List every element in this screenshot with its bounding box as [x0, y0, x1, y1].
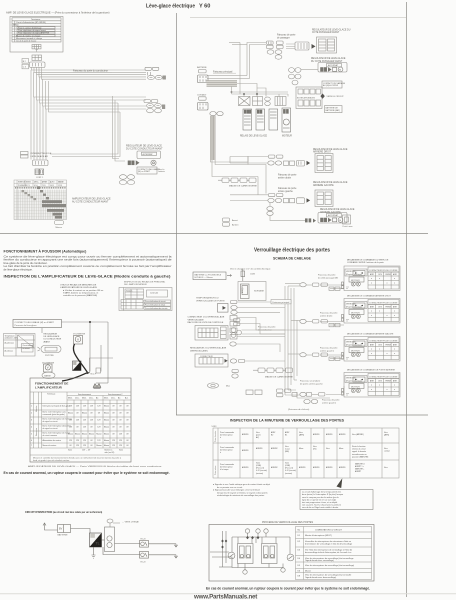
svg-text:REGULATEUR: REGULATEUR: [44, 333, 58, 336]
svg-text:Masse: Masse: [104, 434, 109, 436]
svg-text:MARCHE et: MARCHE et: [355, 462, 365, 465]
wires timer to trunk: [238, 302, 286, 312]
svg-text:Vitez les interrupteurs de ver: Vitez les interrupteurs de verrouillage …: [305, 564, 354, 567]
svg-text:BATTERIE: BATTERIE: [58, 534, 69, 537]
minuterie cells row2: [220, 445, 390, 458]
battery box: [193, 272, 226, 280]
svg-text:Masse: Masse: [82, 434, 87, 436]
svg-text:Avant: Avant: [232, 219, 238, 222]
section divider vertical: [176, 13, 178, 415]
staircase marks: [22, 187, 50, 201]
svg-text:Mass: Mass: [299, 448, 303, 450]
svg-text:Pour vérification des circuits: Pour vérification des circuits: [145, 307, 167, 310]
svg-text:4: 4: [31, 427, 32, 429]
svg-text:B2: B2: [271, 435, 273, 437]
driver regulator box alternat: [137, 151, 161, 158]
bottom merged row texts: [68, 449, 123, 455]
svg-text:Varie: Varie: [68, 450, 72, 452]
svg-text:(ARR): (ARR): [299, 434, 304, 437]
svg-text:Desc.: Desc.: [111, 398, 116, 400]
wire column to relays: [115, 543, 141, 545]
diamond node: [320, 94, 324, 99]
svg-text:à la tempo: à la tempo: [220, 468, 228, 471]
svg-text:laps) de ce qui fait 51 né sur: laps) de ce qui fait 51 né sur suit cègl…: [302, 498, 337, 501]
svg-text:6: 6: [31, 440, 32, 442]
svg-text:MASSE DE CARROSSERIE: MASSE DE CARROSSERIE: [229, 185, 257, 188]
connector ovals right mid: [147, 103, 166, 112]
svg-text:à: à: [220, 437, 221, 439]
wires fig1 to trunk: [242, 330, 331, 334]
connector J1 below legend table: [32, 45, 41, 52]
svg-text:ou minut.: ou minut.: [23, 347, 31, 350]
svg-text:INSPECTION DE LA MINUTERIE DE: INSPECTION DE LA MINUTERIE DE VERROUILLA…: [230, 419, 345, 423]
svg-text:Faisceau principal: Faisceau principal: [213, 70, 233, 73]
svg-text:ARR/B1: ARR/B1: [299, 466, 306, 469]
ovals bottom: [267, 207, 273, 216]
connector pin bead row: [15, 187, 66, 189]
svg-text:Masse: Masse: [104, 445, 109, 447]
svg-text:Pour vérification du relais: Pour vérification du relais: [145, 304, 165, 307]
fuse box block: [296, 87, 322, 109]
svg-text:CONNECTEUR 1 DU VERROUILLAGE: CONNECTEUR 1 DU VERROUILLAGE: [188, 316, 225, 319]
svg-text:(ARR): (ARR): [384, 434, 389, 437]
svg-text:B1: B1: [285, 435, 287, 437]
ignition contact box: [137, 167, 157, 174]
svg-text:d'orientation; de verrouillage: d'orientation; de verrouillage et état d…: [305, 543, 353, 546]
svg-text:Faisceau secondaire: Faisceau secondaire: [300, 380, 321, 383]
svg-text:REGULATEUR DE LEVE-GLACE: REGULATEUR DE LEVE-GLACE: [313, 148, 348, 151]
passenger feed wires top: [229, 43, 266, 79]
svg-text:PUPITRE: PUPITRE: [45, 355, 54, 357]
top faint rule: [190, 17, 406, 19]
svg-text:RACCORD DE L'ETE DE CONTROLE: RACCORD DE L'ETE DE CONTROLE: [188, 321, 224, 324]
svg-text:Masse: Masse: [104, 427, 109, 429]
svg-text:Verrouillez les interrupteurs: Verrouillez les interrupteurs de mécanis…: [305, 540, 351, 543]
source outline box: [238, 282, 266, 301]
actuator rear door: [342, 373, 401, 398]
svg-text:0-12 (circuits): 0-12 (circuits): [256, 469, 267, 472]
minuterie cells row3: [220, 462, 388, 474]
svg-text:contact: contact: [384, 450, 390, 453]
section divider horizontal mid: [0, 233, 428, 235]
svg-text:HYDELIS — Masse: HYDELIS — Masse: [195, 277, 214, 279]
motor unit bottom: [321, 218, 343, 223]
svg-text:DE LEVE-GLACE: DE LEVE-GLACE: [44, 335, 61, 338]
svg-text:Faisceau de porte: Faisceau de porte: [320, 347, 338, 350]
regulator text: [44, 333, 62, 344]
notes bullets below minuterie: [213, 483, 270, 497]
svg-text:ARR/B1: ARR/B1: [242, 433, 249, 436]
svg-text:(Parcourt): (Parcourt): [256, 467, 264, 470]
svg-text:OTEZ LE RELAIS DE MESURES DE: OTEZ LE RELAIS DE MESURES DE: [60, 284, 97, 287]
svg-text:MONT.: MONT.: [26, 182, 32, 184]
masse tag under grid: [55, 221, 64, 225]
svg-text:BOITE A FUSIBLES: BOITE A FUSIBLES: [297, 97, 316, 100]
svg-text:Arrière: Arrière: [232, 224, 239, 227]
svg-text:arrière gauche: arrière gauche: [320, 349, 335, 352]
temperature table: [4, 334, 36, 357]
svg-text:M: M: [339, 70, 341, 72]
mechanism 1 title: [347, 259, 389, 265]
contact feed block: [198, 102, 209, 110]
svg-text:Masse: Masse: [75, 434, 80, 436]
svg-text:DESC.: DESC.: [34, 182, 39, 184]
svg-text:voir au point. Tout lui chaud: voir au point. Tout lui chaud avec la pe…: [302, 504, 342, 507]
relay tall 2: [256, 109, 265, 130]
svg-text:CONTACT D'ALLUMAGE (M) ou STA: CONTACT D'ALLUMAGE (M) ou START: [15, 321, 55, 324]
svg-text:lorsque tout le voyant se éten: lorsque tout le voyant se étendu, se voy…: [217, 491, 267, 494]
svg-text:Fonctionnement: Fonctionnement: [78, 393, 91, 396]
svg-text:de l'interrupteur: de l'interrupteur: [220, 434, 233, 437]
relay RC-8 lower: [140, 552, 149, 559]
svg-text:(M) ou START: (M) ou START: [138, 170, 151, 173]
svg-text:SURTAGE: SURTAGE: [254, 290, 264, 293]
ground arrow lower: [174, 555, 177, 558]
rear left connector row: [268, 194, 305, 204]
timer connectors: [231, 301, 238, 315]
svg-text:(environ): (environ): [285, 473, 292, 475]
svg-text:Vers le chargeur et n° de cont: Vers le chargeur et n° de contrôle élect…: [230, 268, 271, 271]
svg-text:MARCHE +: MARCHE +: [355, 468, 364, 471]
svg-text:AU (M) A L'INTER: AU (M) A L'INTER: [323, 84, 339, 87]
svg-text:commande (point de garde): commande (point de garde): [43, 413, 65, 416]
svg-text:du signal au circuit: du signal au circuit: [43, 427, 58, 430]
svg-text:de l'interrupteur: de l'interrupteur: [220, 449, 233, 452]
arrow into passenger regulator: [312, 44, 316, 49]
multi pin connector passenger: [286, 42, 309, 50]
side connectors fig1: [231, 319, 241, 338]
svg-text:Route la fonction: Route la fonction: [352, 445, 366, 448]
svg-text:Porte sécur.: Porte sécur.: [214, 465, 217, 475]
thick feed bundle: [207, 81, 238, 87]
bottom hub wires: [285, 380, 344, 398]
band turn right: [211, 156, 267, 177]
row wires rear left: [288, 354, 344, 359]
svg-text:www.PartsManuals.net: www.PartsManuals.net: [193, 594, 257, 600]
svg-text:AV): AV): [256, 436, 259, 439]
amplifier pin grid table: [14, 180, 67, 220]
svg-text:RC-8: RC-8: [141, 562, 147, 564]
contact ovals: [210, 112, 223, 116]
svg-text:Porte d'entrée: Porte d'entrée: [214, 431, 217, 442]
svg-text:ARRIERE GAUCHE: ARRIERE GAUCHE: [313, 184, 334, 187]
legend table terminals: [12, 18, 61, 42]
svg-text:BATTERIE ou POUSSOIR À: BATTERIE ou POUSSOIR À: [195, 273, 222, 276]
overlay text blobs: [42, 200, 66, 218]
svg-text:RELAIS DE LEVE-GLACE: RELAIS DE LEVE-GLACE: [240, 135, 268, 138]
svg-text:10 11: 10 11: [50, 185, 54, 187]
svg-text:arrière droite: arrière droite: [278, 176, 292, 179]
svg-text:CIRCUIT D'INSPECTION (au circu: CIRCUIT D'INSPECTION (au circuit réel de…: [25, 511, 102, 514]
svg-text:M/Noir: M/Noir: [13, 25, 19, 27]
svg-text:arrière gauche: arrière gauche: [278, 190, 294, 193]
crown mark: [93, 384, 101, 389]
callout wedge: [337, 478, 343, 488]
svg-text:ARR/: ARR/: [285, 431, 290, 434]
arrow to fuse: [227, 274, 232, 276]
wire battery to amp: [71, 529, 91, 534]
svg-text:vide (ou 0V): vide (ou 0V): [105, 452, 115, 454]
battery box: [58, 525, 71, 533]
svg-text:1: 1: [31, 406, 32, 408]
left bus in procede box: [219, 531, 232, 567]
svg-text:INTERRUPTEUR DE: INTERRUPTEUR DE: [31, 153, 52, 155]
svg-text:● Vérifiez le contact en se p: ● Vérifiez le contact en se position ON …: [63, 289, 104, 292]
lock relay block left: [238, 544, 254, 564]
bus diamonds: [221, 540, 224, 543]
fuse symbol: [241, 269, 245, 282]
L wire to driver regulator: [113, 96, 126, 161]
svg-text:l'égard étendu avec verrouilla: l'égard étendu avec verrouillage): [305, 559, 334, 562]
masse oval: [42, 372, 55, 378]
svg-text:Point à mas: Point à mas: [343, 225, 353, 228]
legend outer frame: [10, 17, 63, 53]
procede outer box: [209, 525, 374, 582]
svg-text:deux (entre) le l'interruption: deux (entre) le l'interruption R (le plu…: [302, 493, 344, 496]
svg-text:de l'interrupteur: de l'interrupteur: [220, 466, 233, 469]
svg-text:Mass: Mass: [339, 448, 343, 450]
svg-text:Mont.: Mont.: [104, 397, 109, 400]
lock relay block right: [262, 544, 278, 564]
svg-text:SCHEMA DE CABLAGE: SCHEMA DE CABLAGE: [273, 257, 312, 261]
svg-text:TL: TL: [96, 542, 100, 546]
dark connector pre bottom row: [305, 218, 311, 222]
switch connector strip: [33, 160, 49, 166]
svg-text:(environ): (environ): [256, 473, 263, 475]
svg-text:En cas de courant anormal, un: En cas de courant anormal, un rupteur co…: [4, 471, 170, 475]
wires battery to relays: [232, 43, 289, 97]
driver column connectors: [230, 316, 237, 347]
svg-text:VERROUILLAGE: VERROUILLAGE: [188, 318, 205, 321]
wire ignition to node: [42, 322, 108, 383]
thick lead curves: [62, 344, 88, 381]
main feed connector: [198, 75, 209, 83]
row wires passenger AV: [285, 284, 344, 289]
svg-text:ARR/B1: ARR/B1: [326, 433, 333, 436]
inspection circuit: ignition box: [13, 320, 62, 328]
wire frame right of amp: [90, 358, 114, 373]
connector ovals below K1: [267, 50, 282, 59]
svg-text:Pour le contact d'allumage: Pour le contact d'allumage: [18, 26, 42, 29]
svg-text:REGULATEUR 2 DU VERROUILLAGE: REGULATEUR 2 DU VERROUILLAGE: [190, 347, 227, 350]
svg-text:Mont.: Mont.: [82, 397, 87, 400]
svg-text:deverrouillage éclairé d'inter: deverrouillage éclairé d'interruption; d…: [305, 551, 352, 554]
svg-text:Circuit d'alimentation (BT+BRU: Circuit d'alimentation (BT+BRUN): [16, 21, 46, 24]
masse chain bottom: [253, 368, 293, 372]
alternat label front: [318, 63, 347, 73]
connector strip right top: [145, 67, 159, 75]
svg-text:Pour régulateur du signal ARRI: Pour régulateur du signal ARRI•RE: [18, 32, 50, 35]
svg-text:5133: 5133: [212, 426, 218, 428]
svg-text:ARRIERE DROIT: ARRIERE DROIT: [313, 151, 332, 154]
page header title: [146, 4, 210, 10]
svg-text:COMMUTATION DU CIRCUIT: COMMUTATION DU CIRCUIT: [315, 529, 343, 532]
svg-text:12 13: 12 13: [58, 185, 62, 187]
circuit bus wires: [210, 537, 290, 570]
svg-text:fond, et garde à jour du résul: fond, et garde à jour du résultat contin…: [33, 459, 70, 462]
svg-text:Mesure et contrôle du fonction: Mesure et contrôle du fonctionnement éte…: [33, 456, 122, 459]
svg-text:réelectrologie de minuterie de: réelectrologie de minuterie de verrouill…: [217, 494, 265, 497]
svg-text:MECANISME DE COMMANDE DE PORTE: MECANISME DE COMMANDE DE PORTE ARRIERE: [347, 369, 396, 372]
lock circuit lamps: [245, 529, 268, 537]
svg-text:← VERS L'ESSAI: ← VERS L'ESSAI: [122, 521, 139, 524]
wires relays to grounds: [149, 543, 177, 545]
svg-text:2: 2: [31, 413, 32, 415]
svg-text:Lève-glace électrique: Lève-glace électrique: [146, 4, 195, 10]
svg-text:arrière droite: arrière droite: [320, 314, 333, 317]
svg-text:vers de lui ou Régal reste vis: vers de lui ou Régal reste visible à dro…: [302, 506, 339, 509]
note under heading: [60, 284, 104, 298]
svg-text:Montre d'interrupteurs (MULT): Montre d'interrupteurs (MULT): [305, 534, 332, 537]
svg-text:Masse: Masse: [305, 571, 312, 573]
svg-text:Faisceau de porte: Faisceau de porte: [318, 274, 336, 277]
svg-text:MASSE: MASSE: [44, 374, 51, 377]
bottom page edge shadow: [0, 593, 456, 595]
svg-text:1 2 3: 1 2 3: [26, 185, 30, 187]
svg-text:Pour régulateur du signal avan: Pour régulateur du signal avant: [18, 29, 46, 32]
svg-text:MASSE DE CARROSSERIE: MASSE DE CARROSSERIE: [265, 376, 293, 379]
rear right connector row: [268, 155, 305, 166]
row wires rear right: [291, 321, 344, 326]
svg-text:Vers (ARR/B1): Vers (ARR/B1): [352, 433, 364, 436]
svg-text:(Faisceau de châssis): (Faisceau de châssis): [288, 409, 310, 411]
svg-text:REGULATEUR DE LEVE-GLACE: REGULATEUR DE LEVE-GLACE: [313, 181, 348, 184]
svg-text:7: 7: [31, 445, 32, 447]
connector pair K1: [267, 41, 274, 49]
svg-text:ARR/B2: ARR/B2: [271, 466, 278, 469]
main trunk vertical: [285, 286, 297, 395]
connector strip M1: [30, 55, 46, 67]
verrou connector figure 2: [195, 354, 228, 367]
svg-text:LEVE-GLACE AR: LEVE-GLACE AR: [31, 155, 49, 158]
meter left: [228, 552, 235, 559]
svg-text:AMPLIFICATEUR DE LEVE-GLACE —: AMPLIFICATEUR DE LEVE-GLACE — Porte VERR…: [28, 465, 163, 468]
paragraph poussoir: [4, 255, 173, 272]
rear left block: [315, 190, 333, 207]
svg-text:L'AMPLIFICATEUR: L'AMPLIFICATEUR: [35, 386, 63, 390]
svg-text:Mas: Mas: [226, 386, 230, 388]
svg-text:L'AMPLIFICATEUR DE LEVE-GLACE: L'AMPLIFICATEUR DE LEVE-GLACE: [60, 286, 98, 289]
verrou connector figure 1: [195, 326, 228, 341]
svg-text:à: à: [220, 452, 221, 454]
svg-text:Faisceau de porte: Faisceau de porte: [320, 312, 338, 315]
legend avant arriere: [223, 218, 230, 226]
svg-text:● Signaux basculer vous mélan: ● Signaux basculer vous mélanges; vers l…: [213, 489, 261, 492]
svg-text:V: V: [77, 337, 79, 341]
svg-text:(VERROUILLAGE): (VERROUILLAGE): [190, 349, 208, 352]
svg-text:incondtionnaire au: incondtionnaire au: [352, 453, 367, 456]
svg-text:Faisceau de porte: Faisceau de porte: [278, 174, 297, 177]
svg-text:COTE PASSAGER AVANT: COTE PASSAGER AVANT: [312, 31, 340, 34]
actuator rear right: [342, 299, 401, 324]
svg-text:du circuit commun: du circuit commun: [43, 434, 58, 437]
test amplifier black triangle TL: [90, 533, 102, 547]
svg-text:batterie: batterie: [159, 170, 165, 173]
svg-text:VERROUILLAGE DE PORTE: VERROUILLAGE DE PORTE: [196, 299, 225, 302]
svg-text:BATTERIE: BATTERIE: [197, 66, 207, 69]
svg-text:ARF(I): ARF(I): [241, 287, 244, 293]
table grid: [30, 392, 131, 455]
alternat bottom: [318, 213, 347, 224]
svg-text:Masse du moteur et charge: Masse du moteur et charge: [16, 34, 41, 37]
row desc texts: [31, 405, 72, 448]
feed drop with arrow: [43, 523, 58, 530]
fuse relay box 1: [239, 97, 251, 106]
svg-text:La circuit d'allumage de la te: La circuit d'allumage de la tempo prend …: [302, 491, 341, 494]
bottom terminals: [243, 568, 285, 574]
svg-text:Faisceau de porte: Faisceau de porte: [278, 187, 297, 190]
svg-text:3: 3: [31, 420, 32, 422]
svg-text:Terminaux: Terminaux: [31, 19, 40, 21]
svg-text:M.L.P: M.L.P: [91, 374, 97, 376]
svg-text:Pour vérification du circuit: Pour vérification du circuit: [145, 300, 166, 303]
svg-text:TEMPORISATEUR DU: TEMPORISATEUR DU: [196, 297, 219, 300]
connector atop column: [107, 519, 113, 527]
junction diamonds: [246, 536, 249, 539]
svg-text:REGULATEUR DE LEVE-GLACE DU: REGULATEUR DE LEVE-GLACE DU: [312, 29, 351, 32]
svg-text:Desc.: Desc.: [75, 398, 80, 400]
svg-text:Faisceau du porte du conducteu: Faisceau du porte du conducteur: [73, 70, 108, 73]
svg-text:ARRÊT: ARRÊT: [355, 470, 362, 473]
svg-text:du côté passager AV: du côté passager AV: [318, 276, 339, 279]
svg-text:ARR/B1: ARR/B1: [313, 433, 320, 436]
svg-text:CONNECTEUR: CONNECTEUR: [200, 356, 213, 358]
svg-text:l'égard étendu avec deverrouil: l'égard étendu avec deverrouillage): [305, 576, 337, 579]
row connectors rear right: [300, 319, 340, 327]
svg-text:VERS LE CIRCUIT: VERS LE CIRCUIT: [327, 96, 345, 98]
pin label boxes B/C: [22, 59, 29, 69]
svg-text:Desc.: Desc.: [89, 398, 94, 400]
fine pin matrix: [14, 190, 67, 220]
svg-text:du signal au circuit: du signal au circuit: [43, 420, 58, 423]
svg-text:Faisceau de porte: Faisceau de porte: [258, 326, 276, 329]
svg-text:Circuit du point de masse: Circuit du point de masse: [16, 40, 36, 43]
connector ovals lower: [119, 175, 134, 185]
amplifier function table frame: [30, 378, 131, 462]
svg-text:Masse du moteur: Masse du moteur: [43, 444, 57, 447]
svg-text:de passager: de passager: [277, 36, 290, 39]
svg-text:Fonctionnement 2: Fonctionnement 2: [108, 393, 122, 396]
svg-text:Varie: Varie: [119, 450, 123, 452]
connector text block 2: [190, 347, 227, 353]
svg-text:Faisceau principal: Faisceau principal: [273, 301, 290, 304]
svg-text:ALTERNAT: ALTERNAT: [328, 214, 339, 217]
svg-text:arrière gauche: arrière gauche: [322, 401, 337, 404]
junction node: [231, 91, 233, 93]
svg-text:C/DB: C/DB: [250, 274, 255, 276]
svg-text:INTER DE: INTER DE: [18, 182, 25, 184]
page right border: [406, 2, 408, 597]
svg-text:PROCEDE DE VERROUILLAGE DES PO: PROCEDE DE VERROUILLAGE DES PORTES: [262, 521, 314, 524]
svg-text:CONTACT: CONTACT: [197, 94, 207, 97]
svg-text:ARR/B2: ARR/B2: [271, 447, 278, 450]
battery link box: [325, 106, 343, 113]
svg-text:INSPECTION DU RELAIS DE PRINCI: INSPECTION DU RELAIS DE PRINCIPAL: [124, 281, 166, 284]
svg-text:ARR/B1: ARR/B1: [256, 447, 263, 450]
relay inspection figure box: [119, 288, 172, 311]
connector label pupitre: [38, 346, 62, 353]
ground drop from amp: [92, 547, 96, 558]
wire amp to column: [102, 539, 105, 541]
svg-text:Alimentation du moteur: Alimentation du moteur: [43, 439, 62, 442]
svg-text:Interrupteur principal de lève: Interrupteur principal de lève-glace: [43, 405, 71, 408]
svg-text:En cas de courant anormal, un: En cas de courant anormal, un rupteur co…: [206, 586, 370, 591]
svg-text:ARR/B1: ARR/B1: [339, 433, 346, 436]
table header texts: [47, 393, 129, 400]
svg-text:MECANISME DE COMMANDE ARRIERE: MECANISME DE COMMANDE ARRIERE DROIT: [347, 295, 392, 298]
svg-text:de ce premier vers ce circuit.: de ce premier vers ce circuit.: [217, 486, 243, 489]
rear right block: [315, 154, 333, 173]
